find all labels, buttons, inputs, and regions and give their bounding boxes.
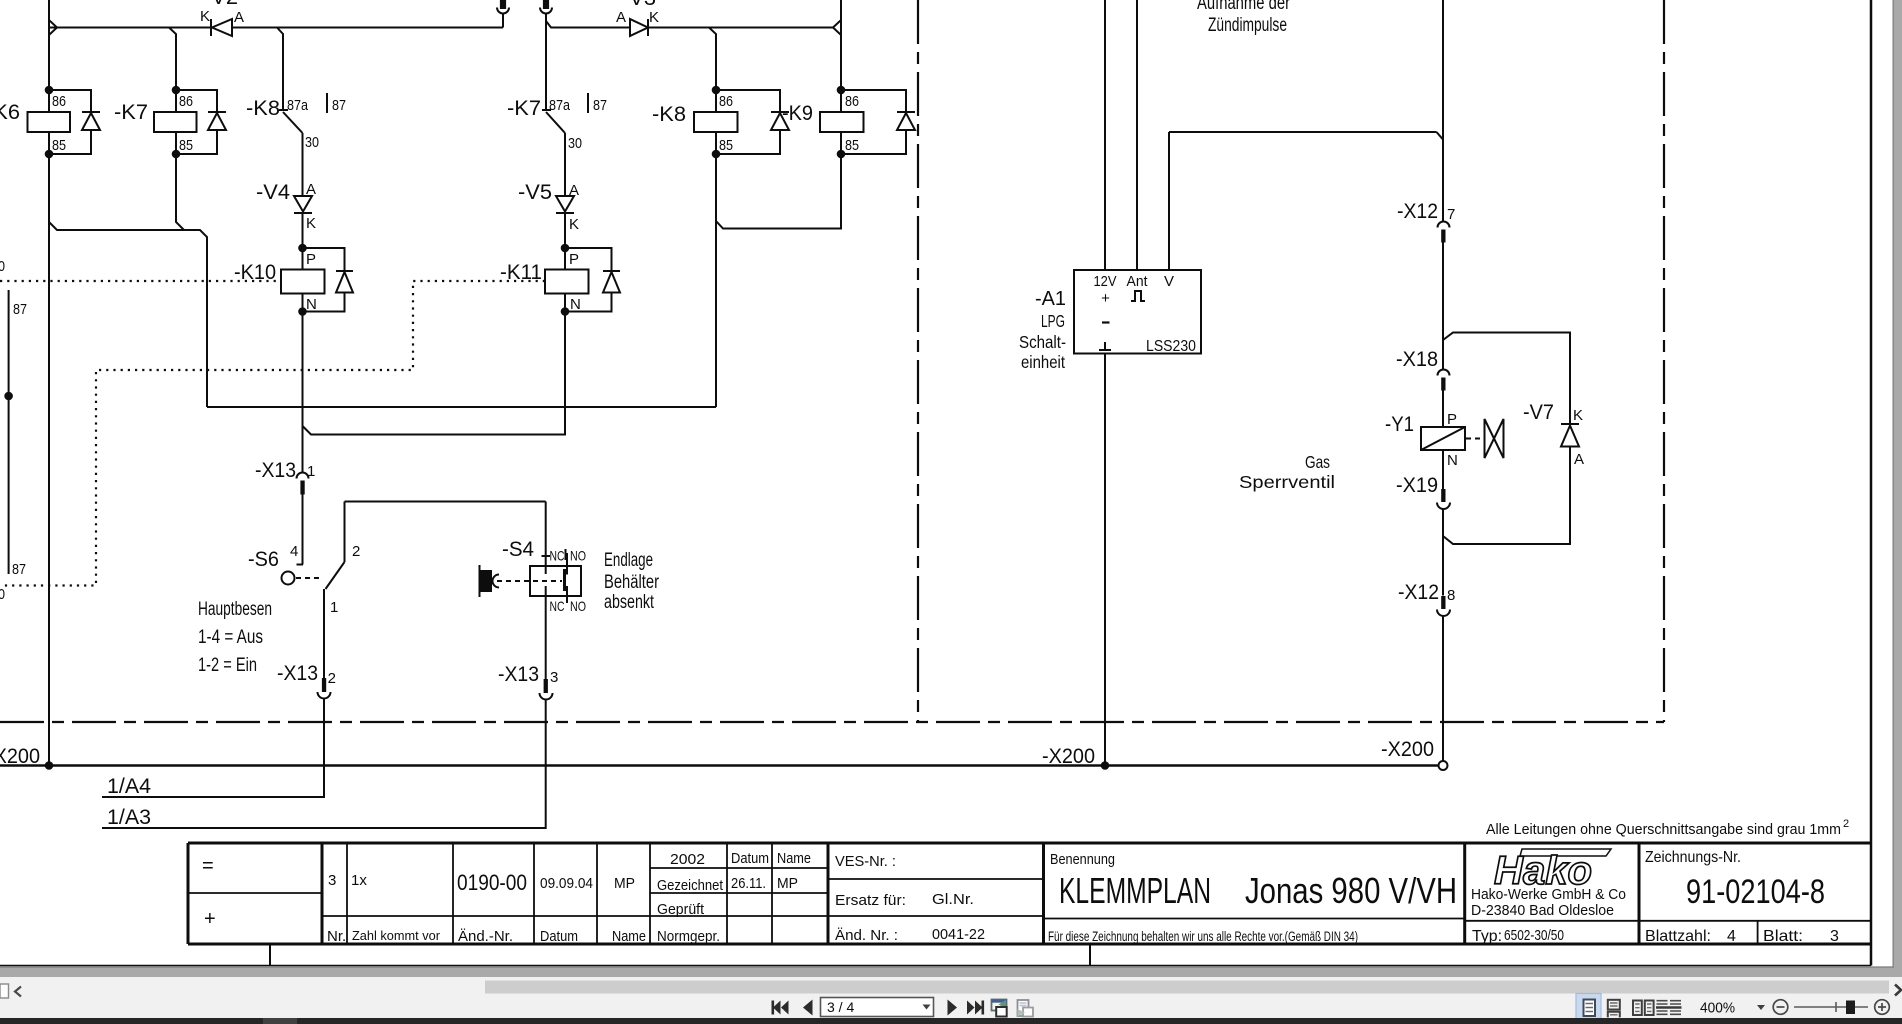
- svg-text:K: K: [649, 9, 659, 26]
- svg-text:Blatt:: Blatt:: [1763, 928, 1803, 945]
- wire: X12.8 to X200 terminal: [1442, 616, 1444, 762]
- annotation Aufnahme der Zuendimpulse: [1197, 0, 1291, 36]
- svg-text:MP: MP: [777, 875, 798, 892]
- connector X13 pin 2: [277, 662, 336, 699]
- svg-text:NC: NC: [550, 548, 565, 564]
- svg-text:Jonas 980 V/VH: Jonas 980 V/VH: [1245, 870, 1457, 911]
- svg-text:85: 85: [845, 137, 859, 154]
- svg-text:absenkt: absenkt: [604, 592, 655, 613]
- wire: X13.3 to sheet ref 1/A3: [102, 699, 546, 828]
- svg-text:0190-00: 0190-00: [457, 870, 527, 895]
- svg-text:Geprüft: Geprüft: [657, 901, 705, 918]
- svg-text:-X12: -X12: [1397, 200, 1438, 223]
- nav last page button: [967, 1001, 984, 1015]
- svg-text:1/A3: 1/A3: [107, 806, 151, 829]
- wire: dotted control link K10-K11: [0, 281, 545, 586]
- svg-text:6502-30/50: 6502-30/50: [1504, 927, 1564, 944]
- svg-text:30: 30: [568, 135, 582, 152]
- svg-text:86: 86: [719, 93, 733, 110]
- terminal X200 right: [1381, 738, 1448, 770]
- svg-text:3: 3: [550, 669, 558, 686]
- svg-text:VES-Nr. :: VES-Nr. :: [835, 853, 896, 870]
- svg-text:Gl.Nr.: Gl.Nr.: [932, 891, 974, 908]
- wire: V2 to plug connector: [236, 27, 503, 29]
- node: bus junction left: [45, 761, 54, 770]
- svg-text:85: 85: [719, 137, 733, 154]
- viewer background right of page: [1894, 0, 1902, 977]
- status bar dark: [0, 1018, 1902, 1024]
- svg-text:=: =: [202, 855, 214, 877]
- svg-text:Name: Name: [612, 928, 646, 945]
- svg-text:2: 2: [352, 543, 360, 560]
- title block frame: [188, 843, 1871, 944]
- svg-text:Änd. Nr. :: Änd. Nr. :: [835, 927, 898, 944]
- svg-text:Benennung: Benennung: [1050, 851, 1115, 868]
- relay coil K6: [0, 86, 70, 159]
- nav prev page button: [803, 1000, 813, 1016]
- wire: X19 down to X12.8: [1442, 509, 1444, 596]
- svg-text:-X13: -X13: [498, 663, 539, 686]
- wire: K8 85 down to ground rail: [715, 154, 717, 407]
- wire: A1 pin Ant from top: [1136, 0, 1138, 270]
- svg-text:K: K: [1573, 407, 1583, 424]
- svg-text:N: N: [306, 296, 317, 313]
- svg-text:Zahl kommt vor: Zahl kommt vor: [352, 929, 440, 943]
- layout icon single page (active): [1576, 994, 1601, 1020]
- nav first page button: [772, 1001, 789, 1015]
- svg-text:-Y1: -Y1: [1385, 413, 1414, 436]
- svg-text:-K7: -K7: [507, 97, 541, 120]
- svg-text:Gezeichnet: Gezeichnet: [657, 877, 724, 894]
- node A: junction arrow into left rail: [49, 20, 57, 35]
- wire: X12.7 feed rail from top: [1442, 0, 1444, 222]
- svg-text:-S4: -S4: [502, 538, 534, 561]
- svg-text:7: 7: [1447, 206, 1455, 223]
- svg-text:3 / 4: 3 / 4: [827, 999, 854, 1015]
- svg-text:KLEMMPLAN: KLEMMPLAN: [1059, 870, 1211, 911]
- solenoid valve Y1: [1239, 411, 1504, 492]
- svg-text:Zündimpulse: Zündimpulse: [1208, 15, 1287, 36]
- relay coil K10: [234, 244, 325, 316]
- wire: K6/K7 85 collector to vertical: [49, 222, 207, 407]
- diode across K11: [565, 248, 620, 312]
- svg-text:Ant: Ant: [1127, 273, 1149, 290]
- connector X13 pin 3: [498, 663, 558, 700]
- svg-text:V: V: [1164, 273, 1174, 290]
- annotation Hauptbesen: [198, 599, 272, 676]
- connector plug pair right (top): [540, 0, 552, 14]
- svg-text:NC: NC: [550, 598, 565, 614]
- wire: K11 N loop back to X13.1 node: [303, 312, 566, 435]
- svg-text:4: 4: [290, 543, 298, 560]
- contact K7b changeover 87a-30: [507, 93, 607, 152]
- svg-text:1x: 1x: [351, 872, 367, 889]
- svg-text:30: 30: [0, 586, 5, 603]
- relay coil K11: [500, 244, 589, 316]
- svg-text:LSS230: LSS230: [1146, 338, 1196, 355]
- svg-text:Hauptbesen: Hauptbesen: [198, 599, 272, 620]
- control unit A1 LPG Schalteinheit: [1019, 270, 1201, 372]
- layout icon two pages: [1633, 1001, 1654, 1016]
- zoom slider: [1794, 1002, 1868, 1012]
- svg-text:87a: 87a: [549, 97, 571, 114]
- svg-text:85: 85: [52, 137, 66, 154]
- wire: V4 to K10: [302, 213, 304, 248]
- svg-text:-A1: -A1: [1035, 288, 1066, 310]
- title block texts: [202, 849, 1839, 945]
- svg-text:Aufnahme der: Aufnahme der: [1197, 0, 1291, 14]
- wire: S6 terminal 1 down to X13.2: [323, 589, 325, 678]
- wire: X12.7 to X18: [1442, 243, 1444, 370]
- svg-text:Änd.-Nr.: Änd.-Nr.: [458, 928, 513, 945]
- switch S4 endlage: [480, 502, 587, 680]
- wire: S6 terminal 2 up and over to S4: [345, 501, 546, 503]
- svg-text:86: 86: [179, 93, 193, 110]
- zoom out button: [1773, 1000, 1788, 1015]
- boundary dash-dot lines: [0, 0, 1664, 722]
- svg-text:Schalt-: Schalt-: [1019, 332, 1066, 352]
- svg-text:N: N: [1447, 452, 1458, 469]
- diode across K9: [841, 90, 915, 154]
- svg-text:4: 4: [1727, 928, 1736, 945]
- horizontal scrollbar thumb: [485, 981, 1889, 994]
- wire: K8/K9 feed rail vertical: [840, 0, 842, 90]
- svg-text:-X200: -X200: [1042, 745, 1095, 768]
- layout icon two page continuous: [1656, 1001, 1682, 1015]
- svg-text:-X200: -X200: [0, 745, 40, 768]
- svg-text:1/A4: 1/A4: [107, 775, 151, 798]
- connector X12 pin 8: [1398, 581, 1455, 616]
- sidebar mini icon: [0, 984, 9, 998]
- svg-text:-K9: -K9: [782, 102, 813, 125]
- svg-text:26.11.: 26.11.: [731, 875, 766, 892]
- svg-text:-V4: -V4: [256, 181, 290, 204]
- connector X12 pin 7: [1397, 200, 1455, 243]
- svg-text:Datum: Datum: [731, 850, 769, 867]
- zoom in button: [1875, 1000, 1890, 1015]
- svg-text:30: 30: [305, 134, 319, 151]
- svg-text:1-4 = Aus: 1-4 = Aus: [198, 627, 263, 648]
- wire: top horizontal feed to V2: [57, 27, 211, 29]
- svg-text:87: 87: [13, 301, 27, 318]
- wire: K9 85 to K8 branch: [716, 154, 841, 229]
- svg-text:91-02104-8: 91-02104-8: [1686, 873, 1825, 911]
- svg-text:87: 87: [593, 97, 607, 114]
- diode across K6: [49, 90, 100, 154]
- scrollbar right arrow: [1895, 985, 1901, 996]
- svg-text:P: P: [306, 251, 316, 268]
- wire: X13.1 to switch S6 terminal 4: [302, 495, 304, 565]
- wire: branch from top rail to contact K8: [277, 28, 283, 111]
- wire: branch from top rail to relay K7 coil: [49, 27, 169, 29]
- diode V3: [616, 0, 659, 36]
- svg-text:-X12: -X12: [1398, 581, 1439, 604]
- svg-text:A: A: [234, 9, 244, 26]
- diode across K10: [303, 248, 354, 312]
- svg-text:einheit: einheit: [1021, 352, 1065, 372]
- svg-text:Sperrventil: Sperrventil: [1239, 472, 1335, 492]
- svg-text:1: 1: [330, 599, 338, 616]
- svg-text:Normgepr.: Normgepr.: [657, 928, 720, 945]
- svg-text:8: 8: [1447, 587, 1455, 604]
- title block inner lines: [188, 843, 1871, 944]
- next view icon (disabled): [1018, 1000, 1034, 1017]
- svg-text:1-2 = Ein: 1-2 = Ein: [198, 655, 257, 676]
- wire: A1 ground pin to bus: [1104, 354, 1106, 766]
- node: bus junction A1: [1101, 761, 1110, 770]
- svg-text:Alle Leitungen ohne Querschnit: Alle Leitungen ohne Querschnittsangabe s…: [1486, 821, 1841, 838]
- wire: K7 85 stub: [176, 154, 184, 230]
- annotation Alle Leitungen: [1486, 818, 1849, 838]
- frame border bottom: [0, 965, 1871, 967]
- connector X19: [1396, 474, 1450, 509]
- switch S6: [248, 502, 360, 617]
- svg-text:Name: Name: [777, 850, 811, 867]
- wire: A1 pin 12V from top: [1104, 0, 1106, 270]
- svg-text:A: A: [616, 9, 626, 26]
- svg-text:Nr.: Nr.: [327, 928, 346, 945]
- svg-text:87a: 87a: [287, 97, 309, 114]
- relay coil K7: [114, 86, 197, 159]
- svg-text:P: P: [569, 251, 579, 268]
- svg-text:-K10: -K10: [234, 261, 276, 284]
- svg-text:3: 3: [328, 872, 336, 889]
- svg-text:2002: 2002: [670, 851, 705, 868]
- previous view icon: [992, 1000, 1007, 1017]
- svg-text:Behälter: Behälter: [604, 572, 660, 593]
- svg-text:P: P: [1447, 411, 1457, 428]
- wire: right plug down to contact K7: [545, 14, 547, 110]
- svg-text:2: 2: [328, 670, 336, 687]
- svg-text:-K8: -K8: [246, 97, 280, 120]
- svg-text:87: 87: [332, 97, 346, 114]
- svg-text:+: +: [204, 908, 216, 930]
- viewer background below page: [0, 968, 1902, 978]
- wire: +12V feed rail left, vertical bus: [48, 0, 50, 112]
- svg-text:A: A: [306, 181, 316, 198]
- toolbar background: [0, 977, 1902, 1018]
- svg-text:86: 86: [52, 93, 66, 110]
- wire: A1 pin V up to X12.7 feed: [1168, 132, 1170, 270]
- wire: V5 to K11: [564, 213, 566, 248]
- diode V7 free-wheel loop: [1443, 333, 1584, 545]
- diode across K7: [176, 90, 226, 154]
- svg-text:-X200: -X200: [1381, 738, 1434, 761]
- svg-text:+: +: [1101, 290, 1110, 307]
- svg-text:0041-22: 0041-22: [932, 926, 985, 943]
- svg-text:2: 2: [1843, 818, 1849, 830]
- svg-text:-X13: -X13: [255, 459, 296, 482]
- frame border right: [1870, 0, 1873, 966]
- svg-text:Hako: Hako: [1494, 849, 1592, 893]
- svg-text:Für diese Zeichnung behalten w: Für diese Zeichnung behalten wir uns all…: [1048, 929, 1358, 944]
- svg-text:D-23840 Bad Oldesloe: D-23840 Bad Oldesloe: [1471, 902, 1614, 919]
- svg-text:30: 30: [0, 258, 5, 275]
- Hako logo: [1494, 849, 1611, 893]
- svg-text:-K6: -K6: [0, 101, 20, 124]
- svg-text:NO: NO: [570, 598, 586, 614]
- svg-text:NO: NO: [570, 548, 586, 564]
- svg-text:N: N: [570, 296, 581, 313]
- wire: contact K8 to diode V4: [302, 133, 304, 196]
- frame stub marks: [269, 944, 271, 966]
- relay coil K8: [652, 28, 738, 159]
- connector X13 pin 1: [255, 459, 315, 495]
- svg-text:-K7: -K7: [114, 101, 148, 124]
- contact K8 changeover 87a-30: [246, 93, 346, 151]
- wire: X13.2 to sheet ref 1/A4: [102, 698, 324, 797]
- wire: ground bus X200: [0, 764, 1439, 766]
- nav next page button: [948, 1000, 958, 1016]
- svg-text:87: 87: [12, 561, 26, 578]
- wire: Y1 to X19: [1442, 450, 1444, 489]
- svg-text:Typ:: Typ:: [1472, 928, 1502, 945]
- svg-text:-K8: -K8: [652, 103, 686, 126]
- svg-text:12V: 12V: [1094, 273, 1117, 290]
- relay coil K9: [782, 86, 864, 159]
- svg-text:MP: MP: [614, 875, 635, 892]
- svg-text:Blattzahl:: Blattzahl:: [1645, 928, 1711, 945]
- svg-text:K: K: [200, 8, 210, 25]
- annotation Endlage Behaelter absenkt: [604, 550, 660, 613]
- svg-text:-X19: -X19: [1396, 474, 1438, 497]
- contact fragment left edge 87: [0, 258, 27, 603]
- wire: contact K7b to diode V5: [564, 133, 566, 196]
- svg-text:Zeichnungs-Nr.: Zeichnungs-Nr.: [1645, 849, 1741, 866]
- svg-text:3: 3: [1830, 928, 1839, 945]
- wire: K10 N to X13.1: [302, 312, 304, 474]
- svg-text:-V7: -V7: [1523, 401, 1554, 424]
- node B: junction arrow into K9 rail: [833, 20, 841, 35]
- svg-text:-S6: -S6: [248, 548, 279, 571]
- diode V4: [256, 181, 316, 232]
- svg-text:85: 85: [179, 137, 193, 154]
- svg-text:K: K: [569, 216, 579, 233]
- wire: V3 to K9 rail: [648, 27, 833, 29]
- svg-text:86: 86: [845, 93, 859, 110]
- scrollbar left arrow: [15, 987, 21, 997]
- layout icon continuous: [1608, 1000, 1620, 1018]
- svg-text:Datum: Datum: [540, 928, 578, 945]
- wire: branch to V3: [546, 21, 630, 28]
- svg-text:A: A: [1574, 451, 1584, 468]
- page number box: [821, 998, 934, 1017]
- connector plug pair left (top): [497, 0, 509, 14]
- wire: ground collector horizontal: [207, 406, 716, 408]
- svg-text:-V5: -V5: [518, 181, 552, 204]
- diode across K8: [716, 90, 789, 154]
- svg-text:K: K: [306, 215, 316, 232]
- svg-text:Gas: Gas: [1305, 452, 1330, 472]
- connector X18: [1396, 348, 1450, 391]
- diode V5: [518, 181, 579, 233]
- svg-text:-X18: -X18: [1396, 348, 1438, 371]
- svg-text:-X13: -X13: [277, 662, 318, 685]
- diode V2: [200, 0, 244, 36]
- svg-text:LPG: LPG: [1041, 311, 1065, 331]
- svg-text:400%: 400%: [1700, 1001, 1735, 1017]
- svg-text:A: A: [569, 182, 579, 199]
- svg-text:Ersatz für:: Ersatz für:: [835, 892, 906, 909]
- svg-text:Endlage: Endlage: [604, 550, 653, 571]
- wire: X18 to valve Y1: [1442, 391, 1444, 428]
- svg-text:09.09.04: 09.09.04: [540, 875, 593, 892]
